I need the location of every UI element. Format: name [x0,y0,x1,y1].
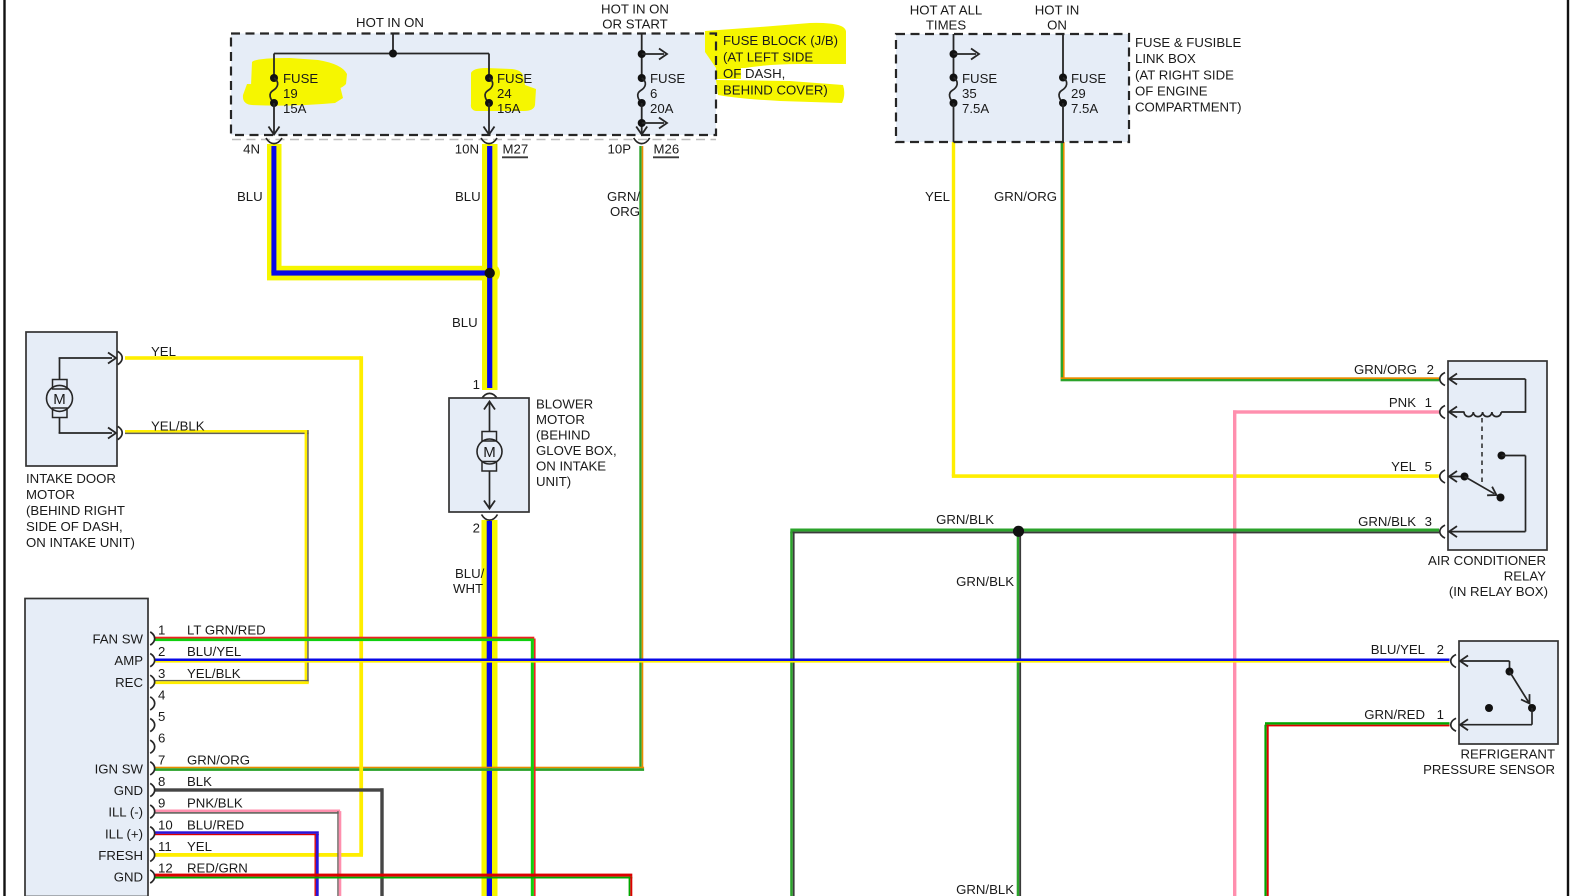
svg-text:19: 19 [283,86,298,101]
wire GRN/BLK left vertical [790,532,794,896]
svg-text:10P: 10P [608,142,632,157]
svg-text:M27: M27 [503,142,529,157]
svg-text:ORG: ORG [610,204,640,219]
svg-text:GLOVE BOX,: GLOVE BOX, [536,443,617,458]
svg-text:15A: 15A [497,101,521,116]
wire LT GRN/RED vertical [531,639,536,896]
svg-text:COMPARTMENT): COMPARTMENT) [1135,100,1241,115]
branch arrow F6 top [638,49,667,60]
highlight over FUSE 24 [471,68,536,111]
svg-text:SIDE OF DASH,: SIDE OF DASH, [26,519,123,534]
svg-text:2: 2 [158,644,165,659]
wire YEL/BLK intake horizontal [125,430,309,434]
svg-text:UNIT): UNIT) [536,474,571,489]
svg-text:M: M [53,391,66,408]
svg-text:15A: 15A [283,101,307,116]
svg-text:9: 9 [158,796,165,811]
svg-text:GRN/BLK: GRN/BLK [956,574,1014,589]
highlight over FUSE BLOCK (J/B) note [705,23,846,103]
svg-text:GND: GND [114,870,143,885]
fuse F6 wire lower [636,103,647,135]
svg-text:ON INTAKE: ON INTAKE [536,459,606,474]
svg-text:AIR CONDITIONER: AIR CONDITIONER [1428,553,1546,568]
wire hot-in-on feed [392,34,394,54]
svg-text:6: 6 [158,731,165,746]
blower pin1 lead [484,402,495,432]
svg-text:4: 4 [158,687,165,702]
label GRN/RED 1 (sensor) [1364,707,1444,722]
svg-text:GRN/ORG: GRN/ORG [187,752,250,767]
svg-text:BLU: BLU [237,189,263,204]
wire BLU/YEL pin2 horizontal [155,659,1450,663]
sensor pin1 arrow [1460,719,1532,730]
svg-text:FUSE: FUSE [1071,71,1106,86]
relay switch arm [1461,473,1505,502]
blower motor box [449,398,529,512]
caption INTAKE DOOR MOTOR [26,471,135,550]
branch arrow F35 [950,49,980,60]
wire GRN/RED vertical [1264,725,1268,896]
wire LT GRN/RED pin1 horizontal [155,637,534,641]
svg-text:WHT: WHT [453,581,483,596]
wire GRN/BLK horizontal [790,529,1439,534]
wire GRN/BLK middle vertical [1017,534,1021,896]
label FUSE 35 7.5A [962,71,997,116]
sensor floating contact [1485,704,1493,712]
fuse F29 wire lower [1062,103,1064,142]
blower motor symbol [477,432,502,472]
wire PNK relay pin1 horizontal [1233,410,1439,413]
note FUSE & FUSIBLE LINK BOX [1135,35,1241,115]
wire GRN/ORG fuse6 vertical [639,146,643,768]
svg-text:GRN/ORG: GRN/ORG [994,189,1057,204]
label BLU/YEL 2 (sensor) [1371,642,1444,657]
wire YEL vertical [359,356,363,855]
connector relay pin5 [1440,470,1445,483]
svg-text:10N: 10N [455,142,479,157]
label YEL (intake) [151,344,176,359]
svg-text:FUSE & FUSIBLE: FUSE & FUSIBLE [1135,35,1241,50]
label YEL (fuse35 wire) [925,189,950,204]
control head pin 4 [150,687,165,710]
control head pin 11 [98,839,212,863]
control head pin 5 [150,709,165,732]
relay pin2 arrow [1449,374,1526,385]
svg-text:ILL (+): ILL (+) [105,826,143,841]
wire YEL pin11 horizontal [155,853,363,857]
svg-text:BLU: BLU [452,315,478,330]
control head pin 10 [105,817,244,841]
label FUSE 29 7.5A [1071,71,1106,116]
svg-text:20A: 20A [650,101,674,116]
svg-text:LINK BOX: LINK BOX [1135,51,1196,66]
label blower pin 1 [473,377,480,392]
svg-text:YEL: YEL [151,344,176,359]
label BLU (below junction) [452,315,478,330]
connector 4N [243,138,282,157]
fuse F24 wire upper [488,54,490,79]
fuse F6 symbol [638,74,646,107]
svg-text:FUSE BLOCK (J/B): FUSE BLOCK (J/B) [723,33,838,48]
control head pin 8 [114,774,212,798]
connector intake pin2 [118,426,123,439]
label M26 [653,142,679,158]
wire BLU 10N vertical [487,146,492,388]
svg-text:GRN/BLK: GRN/BLK [1358,514,1416,529]
wire BLU/RED vertical [315,834,319,896]
branch arrow F6 bottom [638,118,667,129]
svg-text:5: 5 [1425,459,1432,474]
svg-text:YEL/BLK: YEL/BLK [187,666,241,681]
label HOT IN ON (link box) [1035,3,1079,33]
svg-text:GRN/BLK: GRN/BLK [956,882,1014,896]
wire PNK/BLK vertical [337,811,341,896]
fuse F19 wire lower [269,103,280,135]
svg-text:(BEHIND: (BEHIND [536,428,590,443]
refrigerant pressure sensor box [1459,641,1558,744]
wire BLU 4N vertical [271,146,276,273]
fuse F29 wire upper [1062,34,1064,78]
svg-text:BEHIND COVER): BEHIND COVER) [723,83,828,98]
relay pin5 arrow [1449,471,1462,482]
svg-text:1: 1 [473,377,480,392]
svg-text:FRESH: FRESH [98,848,143,863]
wire PNK/BLK pin9 horizontal [155,810,340,814]
junction BLU wires [485,268,495,278]
svg-text:YEL: YEL [925,189,950,204]
caption REFRIGERANT PRESSURE SENSOR [1423,747,1555,778]
svg-text:FUSE: FUSE [497,71,532,86]
highlight halo at BLU junction [479,263,500,284]
bus wire fuse19-fuse24 [274,53,489,55]
svg-text:7.5A: 7.5A [1071,101,1098,116]
label GRN/ORG (fuse29 wire) [994,189,1057,204]
svg-text:3: 3 [158,666,165,681]
svg-text:AMP: AMP [114,653,143,668]
svg-text:PNK/BLK: PNK/BLK [187,796,243,811]
svg-text:RED/GRN: RED/GRN [187,861,248,876]
svg-text:4N: 4N [243,142,260,157]
connector 10P [608,138,650,157]
connector sensor pin1 [1451,718,1456,731]
highlight band BLU horizontal wire [267,266,497,281]
wire YEL/BLK pin3 horizontal [155,680,309,684]
wire BLU/RED pin10 horizontal [155,831,319,835]
svg-text:HOT AT ALL: HOT AT ALL [910,3,983,18]
control head pin 7 [95,752,250,776]
svg-text:ON: ON [1047,18,1067,33]
label HOT IN ON (fuse block) [356,15,424,30]
svg-text:BLU/YEL: BLU/YEL [1371,642,1425,657]
label BLU (4N wire) [237,189,263,204]
wire RED/GRN pin12 horizontal [155,874,632,879]
svg-text:7: 7 [158,752,165,767]
wire YEL fuse35 vertical [952,142,955,476]
label HOT AT ALL TIMES [910,3,983,33]
label YEL/BLK (intake) [151,419,205,434]
svg-text:(AT RIGHT SIDE: (AT RIGHT SIDE [1135,68,1234,83]
label FUSE 6 20A [650,71,685,116]
svg-text:MOTOR: MOTOR [536,412,585,427]
svg-text:HOT IN ON: HOT IN ON [356,15,424,30]
svg-text:OR START: OR START [602,17,667,32]
svg-text:BLU/YEL: BLU/YEL [187,644,241,659]
label HOT IN ON OR START [601,2,669,32]
svg-text:M: M [483,444,496,461]
label blower pin 2 [473,521,480,536]
svg-text:(IN RELAY BOX): (IN RELAY BOX) [1449,584,1548,599]
svg-text:OF ENGINE: OF ENGINE [1135,84,1208,99]
svg-text:GRN/RED: GRN/RED [1364,707,1425,722]
svg-text:GRN/: GRN/ [607,189,640,204]
svg-text:35: 35 [962,86,977,101]
svg-text:YEL: YEL [187,839,212,854]
label GRN/BLK 3 (relay) [1358,514,1432,529]
fuse F35 wire lower [953,103,955,142]
svg-text:11: 11 [158,839,172,854]
relay pin1 arrow [1449,407,1457,418]
relay coil circuit [1448,379,1526,417]
wire YEL/BLK vertical [305,430,309,683]
fuse F29 symbol [1059,74,1067,108]
connector 10N [455,138,497,157]
control head pin 12 [114,861,248,885]
svg-text:5: 5 [158,709,165,724]
svg-text:HOT IN: HOT IN [1035,3,1079,18]
highlight band BLU 10N wire [482,144,498,390]
svg-text:FUSE: FUSE [283,71,318,86]
svg-text:1: 1 [158,623,165,638]
svg-text:ON INTAKE UNIT): ON INTAKE UNIT) [26,535,135,550]
svg-text:INTAKE DOOR: INTAKE DOOR [26,471,116,486]
sensor pin2 arrow [1460,656,1510,667]
svg-text:BLU/: BLU/ [455,566,485,581]
label GRN/BLK (bottom) [956,882,1014,896]
right page border [1567,0,1569,896]
label GRN/ORG (M26 wire) [607,189,640,219]
svg-text:12: 12 [158,861,173,876]
left page border [3,0,5,896]
svg-text:YEL/BLK: YEL/BLK [151,419,205,434]
fuse F35 wire upper [953,34,955,78]
intake door motor box [26,332,117,466]
highlight over FUSE 19 [243,58,347,106]
svg-text:2: 2 [473,521,480,536]
svg-text:2: 2 [1427,362,1434,377]
svg-text:FUSE: FUSE [650,71,685,86]
fuse & fusible link box fill [896,34,1129,142]
connector relay pin2 [1440,373,1445,386]
A/C control head box [25,599,148,896]
caption BLOWER MOTOR [536,397,617,490]
label GRN/BLK (horizontal) [936,512,994,527]
relay dashed link [1481,418,1483,486]
fuse F19 wire upper [273,54,275,79]
svg-text:MOTOR: MOTOR [26,487,75,502]
svg-text:GRN/BLK: GRN/BLK [936,512,994,527]
wire GRN/ORG fuse29 vertical [1061,142,1065,379]
svg-text:BLK: BLK [187,774,212,789]
label YEL 5 (relay) [1391,459,1432,474]
fuse F19 symbol [270,74,278,107]
svg-text:HOT IN ON: HOT IN ON [601,2,669,17]
svg-text:(BEHIND RIGHT: (BEHIND RIGHT [26,503,125,518]
fuse block (J/B) fill [231,34,716,136]
label M27 [502,142,528,158]
svg-text:7.5A: 7.5A [962,101,989,116]
intake motor symbol [47,380,73,418]
label BLU/WHT [453,566,485,596]
svg-text:IGN SW: IGN SW [95,761,144,776]
echo dashed line under fuse block [232,139,716,141]
intake motor pin1 lead [59,353,116,380]
svg-text:REFRIGERANT: REFRIGERANT [1460,747,1555,762]
label PNK 1 (relay) [1389,395,1432,410]
wire GRN/ORG relay pin2 horizontal [1061,377,1439,381]
svg-text:GRN/ORG: GRN/ORG [1354,362,1417,377]
wire GRN/RED sensor horizontal [1265,722,1450,726]
svg-text:2: 2 [1437,642,1444,657]
wire RED/GRN vertical [629,877,633,896]
label FUSE 24 15A [497,71,532,116]
svg-text:8: 8 [158,774,165,789]
wire BLU/WHT blower to bottom [487,521,492,896]
wire BLK vertical [380,788,383,896]
fuse F6 wire upper [641,34,643,78]
svg-text:LT GRN/RED: LT GRN/RED [187,623,266,638]
svg-text:PRESSURE SENSOR: PRESSURE SENSOR [1423,762,1555,777]
svg-text:RELAY: RELAY [1504,569,1546,584]
svg-text:REC: REC [115,675,143,690]
svg-text:BLU: BLU [455,189,481,204]
svg-text:FUSE: FUSE [962,71,997,86]
svg-text:PNK: PNK [1389,395,1416,410]
caption AIR CONDITIONER RELAY [1428,553,1548,599]
label GRN/BLK (middle vertical) [956,574,1014,589]
fuse block (J/B) dashed border [231,34,716,136]
connector relay pin3 [1440,525,1445,538]
relay pin3 arrow [1449,526,1457,537]
wire YEL intake horizontal [125,356,361,360]
wire GRN/ORG pin7 horizontal [155,767,644,771]
label BLU (10N wire) [455,189,481,204]
wire BLK pin8 horizontal [155,788,384,791]
svg-text:M26: M26 [654,142,680,157]
svg-text:3: 3 [1425,514,1432,529]
svg-text:24: 24 [497,86,512,101]
connector relay pin1 [1440,406,1445,419]
sensor switch [1506,661,1537,725]
svg-text:6: 6 [650,86,657,101]
svg-text:GND: GND [114,783,143,798]
connector blower pin1 [482,393,498,399]
label FUSE 19 15A [283,71,318,116]
svg-text:ILL (-): ILL (-) [108,805,143,820]
note FUSE BLOCK (J/B) [723,33,838,98]
svg-text:FAN SW: FAN SW [92,632,143,647]
highlight band BLU/WHT wire [482,520,498,896]
fuse F24 wire lower [484,103,495,135]
fuse & fusible link box dashed border [896,34,1129,142]
control head pin 2 [114,644,241,668]
junction GRN/BLK [1013,526,1024,537]
highlight band BLU 4N wire [267,144,282,280]
air conditioner relay box [1448,361,1547,550]
fuse F35 symbol [950,74,958,108]
control head pin 6 [150,731,165,754]
intake motor pin2 lead [59,418,116,439]
wire BLU horizontal [271,270,489,275]
svg-text:29: 29 [1071,86,1086,101]
svg-text:BLU/RED: BLU/RED [187,817,244,832]
control head pin 1 [92,623,265,647]
connector sensor pin2 [1451,655,1456,668]
wire PNK vertical to bottom [1233,410,1236,896]
svg-text:OF DASH,: OF DASH, [723,66,785,81]
svg-text:TIMES: TIMES [926,18,967,33]
fuse F24 symbol [485,74,493,107]
junction bus [389,50,397,58]
wire YEL relay pin5 horizontal [952,474,1439,478]
control head pin 3 [115,666,241,690]
svg-text:1: 1 [1425,395,1432,410]
svg-text:BLOWER: BLOWER [536,397,593,412]
svg-text:1: 1 [1437,707,1444,722]
connector blower pin2 [482,515,498,521]
blower pin2 lead [484,471,495,509]
svg-text:(AT LEFT SIDE: (AT LEFT SIDE [723,50,813,65]
label GRN/ORG 2 (relay) [1354,362,1434,377]
connector intake pin1 [118,351,123,364]
svg-text:YEL: YEL [1391,459,1416,474]
control head pin 9 [108,796,243,820]
relay fixed contact [1449,452,1526,532]
svg-text:10: 10 [158,817,173,832]
